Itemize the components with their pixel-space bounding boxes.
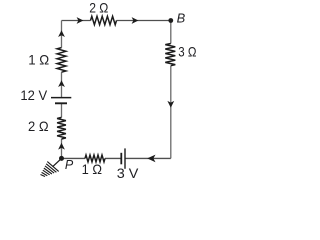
wire top side [62,20,171,22]
resistor 2ohm left [57,117,66,139]
arrow left (bottom wire) [147,155,155,163]
arrow up (left wire above P) [58,143,65,150]
battery 3V short plate [120,153,122,165]
resistor 1ohm left [57,48,66,73]
wire left side [61,21,63,159]
battery 12V short plate [55,102,67,104]
svg-text:12 V: 12 V [20,87,47,103]
svg-text:2 Ω: 2 Ω [28,118,49,134]
arrow right (top-left wire) [77,17,84,24]
svg-text:2 Ω: 2 Ω [89,0,108,16]
svg-text:1 Ω: 1 Ω [82,161,102,177]
svg-text:P: P [65,158,74,172]
arrow up (left wire above battery) [58,80,65,87]
wire bottom side [62,157,171,159]
svg-text:1 Ω: 1 Ω [28,52,49,68]
ground hatch [41,162,59,177]
resistor 1ohm bottom [85,155,105,162]
svg-text:3 Ω: 3 Ω [178,44,196,60]
ground lead at P [53,160,61,167]
node P dot [59,156,64,161]
svg-text:3 V: 3 V [117,165,139,181]
resistor 3ohm right [165,44,175,66]
battery 3V long plate [124,148,126,168]
wire right side [170,21,172,159]
arrow down (right wire) [167,101,174,108]
resistor 2ohm top [91,16,117,24]
arrow right (top-right wire) [132,17,139,24]
node B dot [168,18,173,23]
arrow up (left wire top) [58,30,65,37]
battery 12V long plate [51,97,71,99]
svg-text:B: B [177,11,186,26]
